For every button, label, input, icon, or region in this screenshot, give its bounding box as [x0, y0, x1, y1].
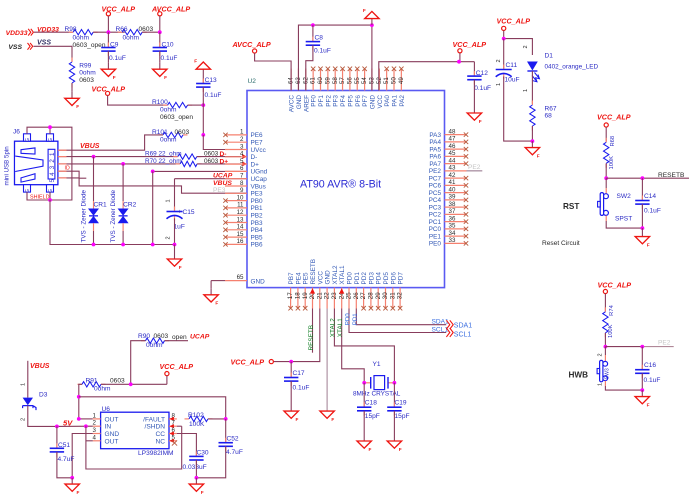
U2 bottom pin 30 PD5 — [382, 272, 390, 311]
U2 pin 65 GND — [225, 274, 265, 285]
resistor R98 — [65, 26, 106, 49]
ground rail under USB — [94, 244, 175, 246]
U2 bottom pin 19 PE5 — [302, 272, 310, 310]
junction R102/C52 — [224, 417, 228, 421]
svg-text:3: 3 — [93, 427, 97, 434]
resistor R91 0ohm — [78, 377, 126, 392]
svg-text:0603: 0603 — [79, 77, 94, 84]
U2 left pin 8 VBus — [225, 180, 266, 191]
svg-text:0.1uF: 0.1uF — [644, 208, 661, 215]
resistor R100 — [152, 99, 193, 121]
svg-text:CC: CC — [155, 431, 165, 438]
svg-text:0.1uF: 0.1uF — [109, 55, 126, 62]
svg-text:38: 38 — [449, 201, 456, 208]
U2 left pin 9 PE3 — [225, 187, 263, 198]
ground flag up (top) — [363, 8, 379, 25]
svg-text:57: 57 — [339, 77, 346, 84]
U2 top pin 52 VCC — [376, 69, 384, 109]
junction LED block bottom — [531, 139, 535, 143]
svg-text:0.1uF: 0.1uF — [644, 377, 661, 384]
capacitor C15 1uF — [166, 199, 195, 244]
port SCL1 — [446, 328, 471, 338]
svg-text:ID: ID — [65, 165, 70, 171]
svg-text:U2: U2 — [248, 78, 257, 85]
svg-text:PD3: PD3 — [368, 272, 375, 285]
svg-text:VCC: VCC — [317, 271, 324, 285]
wire shield right tab — [49, 127, 51, 134]
svg-text:PA1: PA1 — [392, 95, 399, 107]
ground below pin 22 — [320, 411, 335, 422]
svg-text:5: 5 — [49, 178, 56, 182]
svg-text:PB7: PB7 — [288, 272, 295, 285]
svg-text:0.1uF: 0.1uF — [314, 48, 331, 55]
U2 top pin 58 PF3 — [332, 67, 340, 107]
svg-text:PD0: PD0 — [347, 272, 354, 285]
svg-text:39: 39 — [449, 194, 456, 201]
U2 right pin 44 PA7 — [429, 157, 468, 168]
wire 5V rail to IN pin2 — [57, 425, 93, 427]
svg-text:PA5: PA5 — [429, 146, 441, 153]
U2 right pin 38 PC3 — [429, 201, 469, 212]
U2 left pin 13 PB3 — [223, 216, 263, 227]
svg-text:45: 45 — [449, 150, 456, 157]
svg-text:D-: D- — [251, 154, 258, 161]
U2 right pin 46 PA5 — [429, 143, 468, 154]
svg-text:PC3: PC3 — [429, 204, 442, 211]
LED D1 — [523, 45, 598, 104]
svg-text:R69 22_ohm: R69 22_ohm — [145, 151, 182, 158]
svg-text:VSS: VSS — [8, 44, 22, 51]
svg-text:0.1uF: 0.1uF — [161, 55, 178, 62]
svg-text:65: 65 — [237, 274, 244, 281]
svg-text:PF0: PF0 — [311, 95, 318, 107]
crystal Y1 8MHz — [353, 361, 401, 397]
svg-text:3: 3 — [240, 143, 244, 150]
svg-text:RESETB: RESETB — [310, 259, 317, 285]
svg-text:PE2: PE2 — [429, 168, 442, 175]
wire R91 left to OUT node — [79, 384, 82, 419]
ground reset circuit — [635, 228, 650, 247]
svg-text:VBUS: VBUS — [80, 143, 100, 150]
wire J6 shield loop — [27, 127, 72, 200]
junction CR1 tap — [92, 155, 96, 159]
svg-text:C13: C13 — [205, 77, 217, 84]
svg-text:SHIELD: SHIELD — [30, 194, 50, 200]
capacitor C52 4.7uF — [196, 419, 242, 478]
port VDD33 — [6, 29, 34, 37]
wire GND pin3 down — [72, 434, 93, 478]
wire R66 to AVCC node — [142, 31, 160, 33]
svg-text:54: 54 — [361, 77, 368, 84]
U2 top pin 49 PA2 — [398, 67, 406, 107]
svg-text:4.7uF: 4.7uF — [226, 449, 243, 456]
svg-text:4: 4 — [240, 151, 244, 158]
svg-text:F: F — [194, 59, 197, 64]
svg-text:51: 51 — [383, 77, 390, 84]
svg-text:F: F — [201, 490, 204, 495]
U2 top pin 56 PF5 — [347, 67, 355, 107]
power port VCC_ALP (regulator out) — [160, 362, 194, 384]
wire GND pins to ground flag — [298, 25, 371, 90]
junction pin4 riser — [84, 424, 88, 428]
resistor R69 — [145, 151, 219, 160]
junction crystal right — [393, 381, 397, 385]
U2 bottom pin 18 PE4 — [295, 272, 303, 310]
svg-text:HWB: HWB — [569, 371, 589, 380]
svg-text:8: 8 — [240, 180, 244, 187]
switch SW2 SPST — [598, 178, 643, 228]
svg-text:R90: R90 — [138, 333, 150, 340]
junction node VCC_ALP / C9 — [107, 30, 111, 34]
wire RESETB from pin 20 — [312, 309, 314, 353]
svg-text:G: G — [25, 138, 31, 142]
junction C51 — [55, 425, 59, 429]
svg-text:7: 7 — [240, 173, 244, 180]
U2 bottom pin 31 PD6 — [389, 272, 397, 311]
svg-text:0.1uF: 0.1uF — [205, 92, 222, 99]
U2 top pin 62 AREF — [302, 69, 310, 113]
svg-text:PF1: PF1 — [318, 95, 325, 107]
svg-text:AVCC: AVCC — [289, 95, 296, 113]
wire R91 to VCC_ALP node — [101, 383, 167, 385]
svg-text:R67: R67 — [545, 106, 557, 113]
wire reset node to RESETB — [606, 177, 689, 179]
junction rail C15 — [173, 243, 177, 247]
resistor R67 — [530, 101, 557, 142]
U2 right pin 48 PA3 — [429, 128, 468, 139]
svg-text:SCL1: SCL1 — [432, 327, 449, 334]
svg-text:PC1: PC1 — [429, 219, 442, 226]
svg-text:6: 6 — [240, 165, 244, 172]
svg-text:CR2: CR2 — [123, 202, 137, 209]
resistor R102 100K — [185, 412, 226, 428]
svg-text:PD1: PD1 — [352, 313, 359, 326]
svg-text:VBUS: VBUS — [30, 363, 50, 370]
capacitor C9 — [101, 32, 126, 63]
svg-text:0ohm: 0ohm — [160, 136, 177, 143]
svg-text:C19: C19 — [395, 399, 407, 406]
svg-text:3: 3 — [49, 165, 56, 169]
capacitor C8 — [306, 25, 331, 54]
port VSS — [8, 43, 32, 51]
svg-text:R102: R102 — [188, 412, 204, 419]
U2 right pin 41 PC6 — [429, 179, 469, 190]
svg-text:C30: C30 — [197, 449, 209, 456]
svg-text:PE2: PE2 — [468, 164, 481, 171]
U2 left pin 5 D+ — [225, 158, 259, 169]
svg-text:RESETB: RESETB — [658, 172, 685, 179]
svg-text:48: 48 — [449, 128, 456, 135]
svg-text:1: 1 — [166, 199, 172, 202]
svg-text:44: 44 — [449, 157, 456, 164]
ground below C18 — [357, 441, 372, 452]
junction crystal left — [362, 381, 366, 385]
svg-text:50: 50 — [391, 77, 398, 84]
svg-text:PF6: PF6 — [355, 95, 362, 107]
svg-text:100K: 100K — [609, 156, 615, 170]
svg-text:J6: J6 — [13, 129, 20, 136]
svg-text:2: 2 — [240, 136, 244, 143]
junction reset ground node — [641, 226, 645, 230]
wire GND pin 22 down — [326, 309, 328, 412]
svg-text:GND: GND — [105, 431, 120, 438]
U2 bottom pin 17 PB7 — [287, 272, 295, 310]
junction R90/R91 node — [129, 382, 133, 386]
capacitor C12 — [467, 62, 491, 113]
svg-text:VSS: VSS — [37, 40, 51, 47]
svg-text:1: 1 — [240, 129, 244, 136]
svg-text:61: 61 — [310, 77, 317, 84]
svg-text:23: 23 — [331, 292, 338, 299]
svg-text:25: 25 — [346, 292, 353, 299]
U2 left pin 11 PB1 — [223, 202, 263, 213]
power port VCC_ALP (LED block) — [497, 17, 531, 39]
svg-text:0603: 0603 — [154, 333, 169, 340]
svg-text:34: 34 — [449, 230, 456, 237]
power port AVCC_ALP — [151, 5, 190, 33]
U2 left pin 15 PB5 — [223, 231, 263, 242]
svg-text:PD1: PD1 — [354, 272, 361, 285]
svg-text:55: 55 — [354, 77, 361, 84]
svg-text:PA7: PA7 — [429, 161, 441, 168]
wire J6 pin3 D+ to R70 — [58, 163, 180, 165]
svg-text:PD2: PD2 — [361, 272, 368, 285]
junction shield top — [48, 125, 52, 129]
svg-text:26: 26 — [353, 292, 360, 299]
U2 bottom pin 21 VCC — [316, 271, 324, 309]
resistor R68 100K — [604, 136, 616, 178]
svg-text:D3: D3 — [39, 392, 48, 399]
svg-text:1: 1 — [523, 89, 529, 92]
svg-text:GND: GND — [251, 278, 266, 285]
svg-text:mini USB 5pin: mini USB 5pin — [4, 146, 11, 186]
svg-text:10uF: 10uF — [505, 77, 520, 84]
U2 top pin 60 PF1 — [317, 67, 325, 107]
svg-text:UCAP: UCAP — [190, 334, 210, 341]
svg-text:PD5: PD5 — [383, 272, 390, 285]
U2 right pin 37 PC2 — [429, 208, 469, 219]
junction top rail node — [77, 395, 81, 399]
svg-text:12: 12 — [237, 209, 244, 216]
power port VCC_ALP (reset) — [597, 112, 631, 141]
svg-text:G: G — [48, 138, 54, 142]
svg-text:46: 46 — [449, 143, 456, 150]
U2 right pin 47 PA4 — [429, 136, 468, 147]
wire chip pin6 UGnd to ground rail — [153, 170, 247, 172]
svg-text:GND: GND — [296, 95, 303, 110]
U2 top pin 53 GND — [369, 69, 377, 110]
U2 top pin 64 AVCC — [288, 69, 296, 113]
ground below C9 — [101, 63, 116, 80]
wire pin 43 PE2 stub — [467, 170, 483, 172]
ground below C10 — [153, 63, 168, 80]
svg-text:F: F — [479, 119, 482, 124]
svg-text:R100: R100 — [152, 99, 168, 106]
svg-text:PB5: PB5 — [251, 234, 264, 241]
svg-text:15pF: 15pF — [365, 413, 380, 420]
svg-text:0ohm: 0ohm — [160, 107, 177, 114]
IC U2 AT90 AVR 8-Bit body — [247, 78, 445, 288]
svg-text:VBus: VBus — [251, 183, 266, 190]
svg-text:10: 10 — [237, 194, 244, 201]
svg-text:0603: 0603 — [175, 129, 190, 136]
svg-text:XTAL2: XTAL2 — [330, 318, 337, 338]
svg-text:37: 37 — [449, 208, 456, 215]
svg-text:2: 2 — [21, 418, 27, 421]
svg-text:42: 42 — [449, 172, 456, 179]
arrow pin 24 XTAL1 — [339, 288, 344, 293]
junction rail CR1 — [92, 243, 96, 247]
U2 left pin 1 PE6 — [223, 129, 263, 140]
U2 top pin 51 PA0 — [383, 67, 391, 107]
svg-text:49: 49 — [398, 77, 405, 84]
svg-text:PB6: PB6 — [251, 242, 264, 249]
junction R101 node — [201, 133, 205, 137]
U2 left pin 12 PB2 — [223, 209, 263, 220]
junction HWB node — [604, 345, 608, 349]
svg-text:PE6: PE6 — [251, 132, 264, 139]
junction gnd flag — [370, 23, 374, 27]
ground below C19 — [387, 441, 402, 452]
wire PD1 pin 26 to SDA1 — [356, 309, 446, 325]
svg-text:C12: C12 — [476, 70, 488, 77]
U2 top pin 63 GND — [295, 69, 303, 110]
svg-text:SPST: SPST — [615, 216, 632, 223]
diode CR2 TVS — [110, 164, 136, 245]
svg-text:19: 19 — [302, 292, 309, 299]
svg-text:F: F — [399, 447, 402, 452]
svg-text:PA6: PA6 — [429, 154, 441, 161]
svg-text:C8: C8 — [315, 35, 324, 42]
svg-text:PB4: PB4 — [251, 227, 264, 234]
J6 pin stubs salmon — [58, 149, 67, 151]
junction C14 top — [641, 176, 645, 180]
capacitor C14 — [635, 178, 661, 228]
svg-text:PA0: PA0 — [384, 95, 391, 107]
power port VCC_ALP — [102, 5, 136, 33]
svg-text:F: F — [113, 75, 116, 80]
svg-text:0603: 0603 — [110, 377, 125, 384]
wire spur at 178 — [79, 177, 86, 179]
svg-text:C52: C52 — [227, 436, 239, 443]
wire VCC pin 21 to VCC_ALP port — [273, 309, 319, 362]
svg-text:UGnd: UGnd — [251, 169, 268, 176]
svg-text:27: 27 — [360, 292, 367, 299]
wire J6 pin4 ID staircase — [58, 171, 247, 193]
svg-text:29: 29 — [375, 292, 382, 299]
svg-text:PA3: PA3 — [429, 132, 441, 139]
svg-text:D1: D1 — [545, 53, 554, 60]
svg-text:56: 56 — [347, 77, 354, 84]
svg-text:2: 2 — [49, 159, 56, 163]
svg-text:2: 2 — [166, 236, 172, 239]
svg-text:UCap: UCap — [251, 176, 268, 183]
svg-text:15: 15 — [237, 231, 244, 238]
ground pin 65 — [204, 288, 219, 305]
wire chip pin7 UCap to C15 — [175, 178, 248, 180]
svg-text:VCC_ALP: VCC_ALP — [231, 357, 265, 366]
svg-text:1: 1 — [21, 383, 27, 386]
power port AVCC_ALP (chip) — [232, 40, 271, 53]
svg-text:0.033uF: 0.033uF — [183, 464, 207, 471]
junction reset node — [604, 176, 608, 180]
svg-text:0.1uF: 0.1uF — [474, 85, 491, 92]
svg-text:LP3982IMM: LP3982IMM — [138, 450, 174, 457]
svg-text:AVCC_ALP: AVCC_ALP — [232, 40, 271, 49]
svg-text:PE5: PE5 — [303, 272, 310, 285]
U2 right pin 42 PC7 — [429, 172, 469, 183]
svg-text:PC6: PC6 — [429, 183, 442, 190]
svg-text:PB1: PB1 — [251, 205, 264, 212]
capacitor C16 — [635, 347, 660, 391]
junction VCC_ALP tap — [457, 60, 461, 64]
svg-text:PE4: PE4 — [295, 272, 302, 285]
svg-text:VCC_ALP: VCC_ALP — [598, 281, 632, 290]
svg-text:PD4: PD4 — [376, 272, 383, 285]
svg-text:R91: R91 — [86, 377, 98, 384]
svg-text:52: 52 — [376, 77, 383, 84]
svg-text:PB0: PB0 — [251, 198, 264, 205]
svg-text:PF4: PF4 — [340, 95, 347, 107]
svg-text:PE3: PE3 — [251, 191, 264, 198]
U2 left pin 6 UGnd — [225, 165, 268, 176]
svg-text:1: 1 — [598, 383, 604, 386]
svg-text:AT90 AVR® 8-Bit: AT90 AVR® 8-Bit — [300, 178, 381, 190]
svg-text:0603_open: 0603_open — [160, 114, 193, 121]
power port VCC_ALP (right of chip) — [453, 40, 487, 62]
svg-text:PE3: PE3 — [213, 187, 226, 194]
U2 right pin 36 PC1 — [429, 215, 469, 226]
resistor R90 0ohm UCAP — [138, 333, 187, 349]
wire XTAL1 pin 24 to crystal left — [342, 309, 365, 383]
svg-text:35: 35 — [449, 223, 456, 230]
capacitor C10 — [153, 32, 178, 63]
junction C17 top — [289, 360, 293, 364]
svg-text:4.7uF: 4.7uF — [58, 456, 75, 463]
wire CC pin6 to C30 — [177, 434, 197, 457]
U2 right pin 45 PA6 — [429, 150, 468, 161]
svg-text:NC: NC — [155, 438, 165, 445]
U2 right pin 33 PE0 — [429, 237, 468, 248]
svg-text:/SHDN: /SHDN — [144, 424, 165, 431]
svg-text:F: F — [369, 447, 372, 452]
arrow pin 20 RESETB — [310, 288, 315, 293]
svg-text:VCC_ALP: VCC_ALP — [453, 40, 487, 49]
U2 right pin 35 PC0 — [429, 223, 469, 234]
svg-text:IN: IN — [105, 424, 112, 431]
svg-text:PA2: PA2 — [399, 95, 406, 107]
svg-text:68: 68 — [545, 113, 553, 120]
ground HWB — [635, 390, 650, 407]
svg-text:33: 33 — [449, 237, 456, 244]
svg-text:PF5: PF5 — [347, 95, 354, 107]
junction HWB ground node — [640, 388, 644, 392]
arrow into pin 4 D- — [242, 154, 247, 159]
resistor R70 — [145, 158, 219, 167]
U2 left pin 3 UVcc — [225, 143, 267, 154]
wire J6 pin2 D- to R69 — [58, 156, 178, 158]
svg-text:PD6: PD6 — [390, 272, 397, 285]
svg-text:60: 60 — [317, 77, 324, 84]
U2 top pin 50 PA1 — [391, 67, 399, 107]
svg-text:R70 22_ohm: R70 22_ohm — [145, 158, 182, 165]
svg-text:PF7: PF7 — [362, 95, 369, 107]
U2 left pin 10 PB0 — [223, 194, 263, 205]
ground below R99 — [65, 92, 80, 109]
svg-text:11: 11 — [237, 202, 244, 209]
resistor R101 — [152, 129, 190, 144]
svg-text:F: F — [363, 8, 366, 13]
